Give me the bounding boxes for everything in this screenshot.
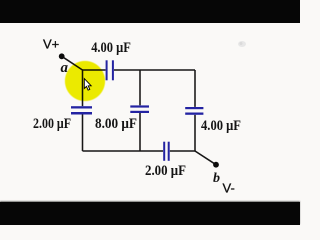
- speck artifact top right: [238, 41, 246, 47]
- svg-text:b: b: [213, 171, 220, 186]
- capacitor C4 4.00 uF right plates: [185, 107, 203, 109]
- bottom letterbox bar: [0, 202, 300, 225]
- svg-text:2.00 μF: 2.00 μF: [33, 116, 71, 132]
- svg-text:2.00 μF: 2.00 μF: [145, 163, 186, 179]
- wire left branch lower: [82, 114, 84, 151]
- wire bottom right segment: [170, 150, 195, 152]
- wire right branch upper: [194, 70, 196, 107]
- wire middle branch upper: [139, 70, 141, 105]
- svg-text:a: a: [61, 60, 69, 76]
- svg-text:V-: V-: [223, 181, 235, 196]
- wire bottom left segment: [83, 150, 164, 152]
- mouse cursor: [84, 79, 91, 91]
- top letterbox bar: [0, 0, 300, 23]
- capacitor C2 2.00 uF left plates: [71, 106, 92, 108]
- terminal dot b: [213, 162, 219, 168]
- wire V+ lead diagonal to node a: [62, 56, 83, 70]
- wire top right segment: [114, 69, 195, 71]
- highlight circle around node a: [64, 60, 106, 102]
- svg-text:4.00 μF: 4.00 μF: [201, 118, 241, 134]
- wire V- lead diagonal from bottom right corner: [195, 151, 216, 165]
- wire top left segment: [83, 69, 106, 71]
- wire left branch upper: [82, 70, 84, 106]
- capacitor C5 2.00 uF bottom plates: [163, 142, 165, 161]
- capacitor C3 8.00 uF middle plates: [130, 105, 149, 107]
- svg-text:4.00 μF: 4.00 μF: [91, 40, 131, 56]
- capacitor C1 4.00 uF top plates: [106, 60, 108, 80]
- terminal dot V+: [59, 53, 65, 59]
- svg-text:V+: V+: [43, 37, 59, 52]
- svg-text:8.00 μF: 8.00 μF: [95, 116, 137, 132]
- wire middle branch lower: [139, 113, 141, 151]
- wire right branch lower: [194, 115, 196, 151]
